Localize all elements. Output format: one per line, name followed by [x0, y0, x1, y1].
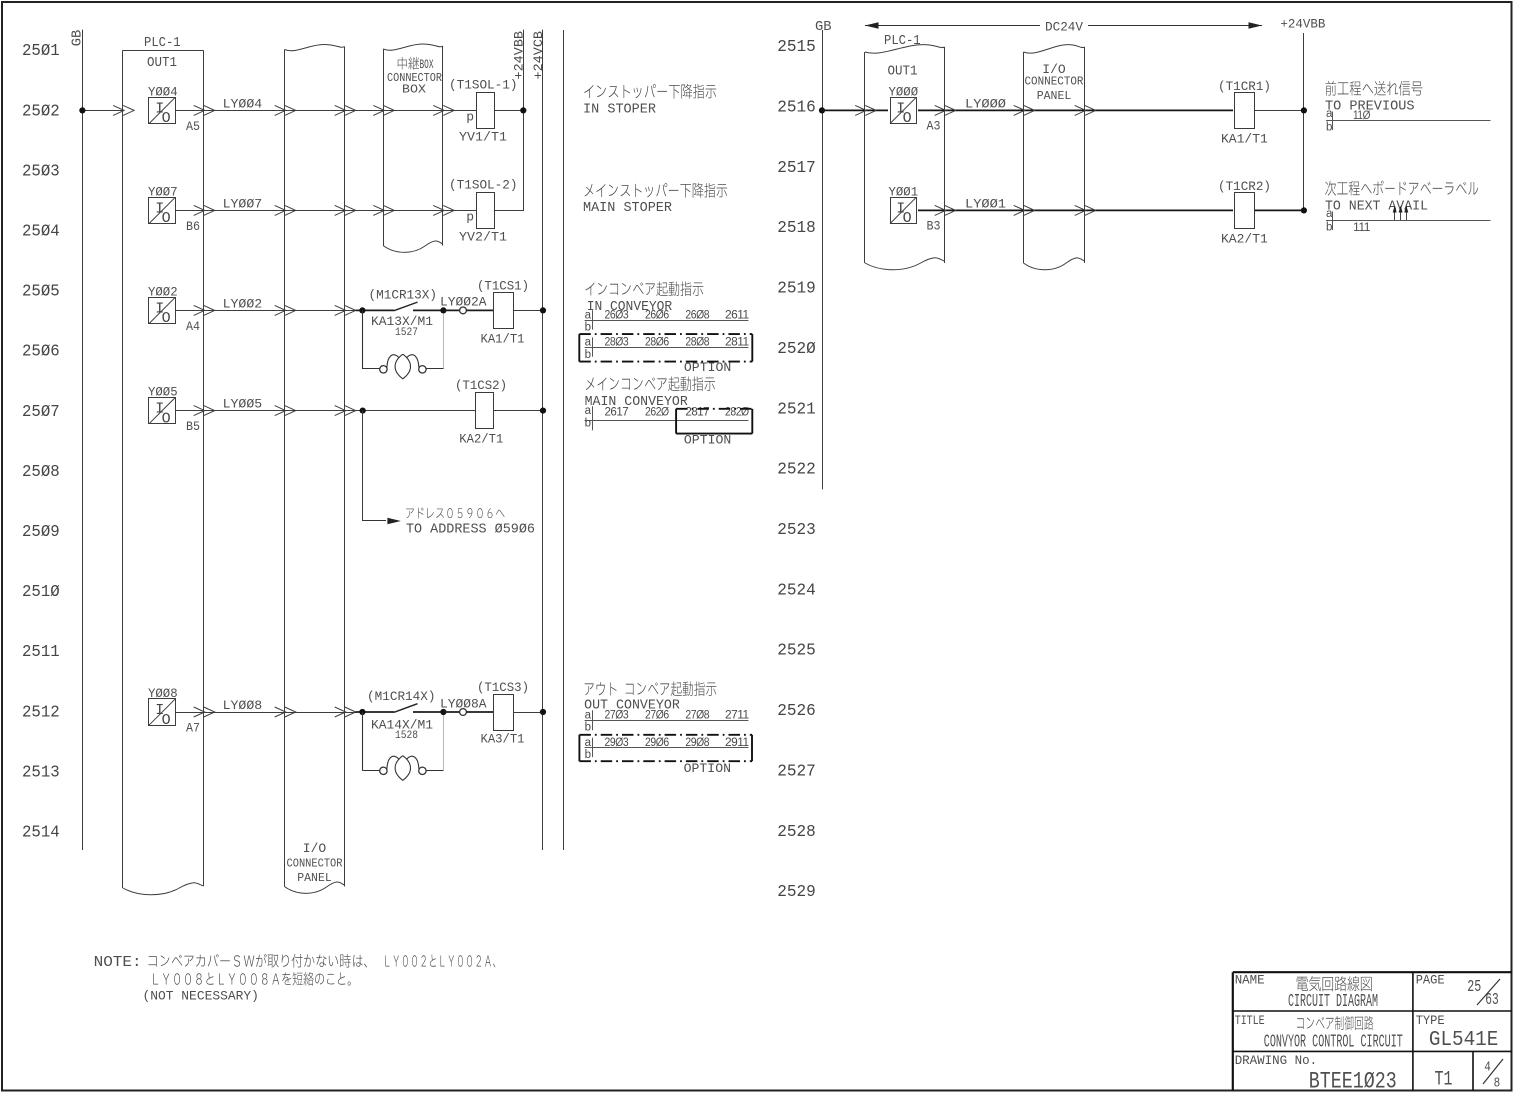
- svg-text:(T1SOL-1): (T1SOL-1): [449, 78, 518, 93]
- wire to connector LY008A: [443, 711, 459, 713]
- svg-text:+24VCB: +24VCB: [531, 31, 546, 80]
- note line 2: [153, 972, 350, 986]
- svg-text:27Ø3: 27Ø3: [605, 707, 629, 721]
- svg-text:TO ADDRESS Ø59Ø6: TO ADDRESS Ø59Ø6: [406, 523, 535, 538]
- svg-text:2524: 2524: [777, 581, 816, 599]
- PLC output Y007 I/O block: [149, 198, 176, 224]
- chevrons PLC right edge rung 2502: [194, 105, 205, 115]
- svg-text:(T1CR1): (T1CR1): [1218, 79, 1271, 94]
- chevrons junction box right rung 2502: [433, 105, 444, 115]
- svg-text:B6: B6: [186, 219, 200, 234]
- chevrons at PLC-1 left edge rung 2502: [113, 105, 124, 115]
- chevrons rung 2516: [855, 105, 866, 115]
- wire LY004: [175, 110, 476, 112]
- svg-text:O: O: [162, 410, 171, 427]
- svg-text:O: O: [162, 210, 171, 227]
- relay coil T1CR2: [1233, 191, 1256, 229]
- PLC-1 box (right): [864, 52, 866, 263]
- junction +24VCB rung 2505: [540, 307, 546, 313]
- svg-text:LYØØ5: LYØØ5: [223, 397, 263, 412]
- wire rung 2516 (thick): [822, 109, 1235, 111]
- svg-text:b: b: [585, 418, 591, 430]
- svg-text:PLC-1: PLC-1: [884, 33, 921, 49]
- svg-text:25Ø4: 25Ø4: [22, 223, 60, 241]
- svg-text:A5: A5: [186, 119, 200, 134]
- svg-text:(T1CS3): (T1CS3): [477, 680, 529, 695]
- column separator line: [563, 30, 565, 850]
- svg-text:YV2/T1: YV2/T1: [459, 229, 507, 244]
- svg-text:BTEE1Ø23: BTEE1Ø23: [1309, 1068, 1397, 1093]
- chevrons panel line2 rung 2502: [335, 105, 346, 115]
- chevrons rung 2505: [194, 305, 205, 315]
- svg-text:GL541E: GL541E: [1429, 1029, 1498, 1052]
- svg-text:+24VBB: +24VBB: [1280, 17, 1325, 32]
- svg-text:KA2/T1: KA2/T1: [459, 432, 503, 447]
- svg-text:BOX: BOX: [402, 84, 426, 97]
- svg-text:A4: A4: [186, 319, 200, 334]
- svg-text:2522: 2522: [777, 461, 816, 479]
- comment インストッパー下降指示: [584, 84, 716, 99]
- svg-text:(M1CR13X): (M1CR13X): [369, 288, 438, 303]
- svg-text:4: 4: [1484, 1061, 1491, 1076]
- svg-text:b: b: [585, 722, 591, 734]
- connector point LY008A: [460, 709, 467, 716]
- svg-text:KA1/T1: KA1/T1: [1221, 131, 1268, 146]
- svg-text:2513: 2513: [22, 763, 60, 781]
- label アドレス05906へ: [406, 508, 504, 519]
- junction rung 2507 branch to address: [360, 408, 366, 414]
- svg-text:KA1/T1: KA1/T1: [481, 332, 525, 347]
- wire T1CS3 to +24VCB: [513, 712, 543, 714]
- comment アウトコンベア起動指示: [585, 681, 717, 696]
- junction GB rung 2516: [819, 107, 825, 113]
- svg-text:LYØØ8: LYØØ8: [223, 698, 263, 713]
- contact KA14X/M1 (M1CR14X): [394, 704, 418, 713]
- svg-text:27Ø6: 27Ø6: [645, 707, 669, 721]
- svg-text:TYPE: TYPE: [1416, 1014, 1445, 1028]
- label 中継BOX CONNECTOR BOX: [398, 57, 419, 70]
- svg-text:B5: B5: [186, 419, 200, 434]
- title 電気回路線図: [1297, 976, 1372, 991]
- comment 次工程へボードアベーラベル: [1325, 180, 1478, 195]
- svg-text:28Ø6: 28Ø6: [645, 334, 669, 348]
- bus +24VCB (left): [542, 30, 544, 850]
- solenoid coil T1SOL-1: [477, 93, 495, 129]
- comment インコンベア起動指示: [586, 281, 704, 296]
- svg-text:252Ø: 252Ø: [777, 340, 816, 358]
- svg-text:251Ø: 251Ø: [22, 583, 60, 601]
- wire T1CR1 to +24VBB (thin): [1255, 110, 1304, 112]
- svg-text:DC24V: DC24V: [1045, 20, 1083, 35]
- contact KA13X/M1 (M1CR13X): [394, 302, 418, 311]
- svg-text:A7: A7: [186, 721, 200, 736]
- junction right of contact rung 2512: [440, 709, 446, 715]
- svg-text:2617: 2617: [605, 404, 629, 418]
- svg-text:25Ø5: 25Ø5: [22, 283, 60, 301]
- svg-text:YØØ7: YØØ7: [148, 184, 178, 199]
- comment メインコンベア起動指示: [586, 376, 715, 391]
- svg-text:(T1SOL-2): (T1SOL-2): [449, 178, 518, 193]
- svg-text:25Ø3: 25Ø3: [22, 162, 60, 180]
- svg-text:29Ø6: 29Ø6: [645, 735, 669, 749]
- option box MAIN CONVEYOR 2817-2820: [676, 408, 752, 410]
- svg-text:2514: 2514: [22, 824, 60, 842]
- junction +24VBB rung 2502: [520, 107, 526, 113]
- svg-text:2521: 2521: [777, 400, 816, 418]
- title block frame: [1233, 971, 1512, 973]
- comment メインストッパー下降指示: [585, 183, 728, 198]
- chevrons junction box left rung 2502: [373, 105, 384, 115]
- comment 前工程へ送れ信号: [1325, 81, 1422, 96]
- svg-text:YØØØ: YØØØ: [889, 84, 919, 99]
- svg-text:(NOT NECESSARY): (NOT NECESSARY): [143, 989, 259, 1004]
- svg-text:GB: GB: [815, 20, 832, 35]
- svg-text:2911: 2911: [725, 735, 750, 749]
- option box OUT CONVEYOR 2903-2911: [579, 734, 752, 736]
- svg-text:a: a: [585, 709, 592, 721]
- relay coil T1CR1: [1233, 91, 1256, 129]
- svg-text:LYØØ2A: LYØØ2A: [440, 295, 487, 310]
- svg-text:+24VBB: +24VBB: [511, 31, 526, 80]
- svg-text:25: 25: [1467, 977, 1481, 996]
- svg-text:26Ø8: 26Ø8: [685, 307, 709, 321]
- wire LY002: [175, 310, 357, 312]
- wire T1CR2 to +24VBB (thick): [1255, 209, 1304, 211]
- svg-text:1527: 1527: [395, 327, 418, 339]
- PLC-1 box (left): [123, 50, 204, 52]
- svg-text:26Ø3: 26Ø3: [605, 307, 629, 321]
- svg-text:(T1CR2): (T1CR2): [1218, 179, 1271, 194]
- bus GB (left): [82, 30, 84, 850]
- svg-text:2711: 2711: [725, 707, 750, 721]
- svg-text:2523: 2523: [777, 521, 816, 539]
- svg-text:DRAWING No.: DRAWING No.: [1235, 1054, 1318, 1068]
- svg-text:25Ø1: 25Ø1: [22, 42, 60, 60]
- svg-text:O: O: [903, 210, 912, 227]
- PLC output Y004 I/O block: [149, 98, 176, 124]
- wire contact to junction: [413, 309, 443, 311]
- chevrons rung 2507: [194, 406, 205, 416]
- wire contact to junction rung 2512: [413, 711, 443, 713]
- svg-text:PLC-1: PLC-1: [144, 35, 181, 51]
- arrowhead to address: [387, 518, 401, 524]
- wire LY007: [175, 210, 476, 212]
- svg-text:b: b: [585, 749, 591, 761]
- svg-text:NOTE:: NOTE:: [94, 955, 142, 971]
- svg-text:a: a: [585, 309, 592, 321]
- svg-text:CONNECTOR: CONNECTOR: [287, 858, 343, 871]
- svg-text:YV1/T1: YV1/T1: [459, 129, 507, 144]
- wire T1SOL-1 to +24VBB: [494, 110, 523, 112]
- svg-text:2527: 2527: [777, 762, 816, 780]
- svg-text:YØØ8: YØØ8: [148, 686, 178, 701]
- svg-text:2512: 2512: [22, 703, 60, 721]
- chevrons panel line1 rung 2502: [275, 105, 286, 115]
- I/O connector panel box (right): [1023, 52, 1025, 263]
- bus GB (right): [822, 30, 824, 489]
- option box IN CONVEYOR 2803-2811: [579, 333, 752, 335]
- svg-text:2528: 2528: [777, 823, 816, 841]
- svg-text:2529: 2529: [777, 883, 816, 901]
- svg-text:a: a: [1326, 108, 1333, 120]
- svg-text:I/O: I/O: [303, 841, 327, 856]
- svg-text:T1: T1: [1435, 1069, 1453, 1092]
- svg-text:YØØ4: YØØ4: [148, 84, 178, 99]
- svg-text:CONVYOR CONTROL CIRCUIT: CONVYOR CONTROL CIRCUIT: [1264, 1032, 1403, 1053]
- junction box 中継BOX CONNECTOR BOX: [383, 49, 385, 246]
- svg-text:(T1CS2): (T1CS2): [455, 378, 507, 393]
- svg-text:OPTION: OPTION: [684, 360, 731, 375]
- svg-text:2515: 2515: [777, 38, 816, 56]
- svg-text:TO NEXT AVAIL: TO NEXT AVAIL: [1325, 200, 1428, 215]
- svg-text:25Ø7: 25Ø7: [22, 403, 60, 421]
- wire to contact: [356, 309, 394, 311]
- svg-text:LYØØ8A: LYØØ8A: [440, 697, 487, 712]
- PLC output Y002 I/O block: [149, 298, 176, 324]
- svg-text:TITLE: TITLE: [1235, 1014, 1265, 1028]
- PLC output Y008 I/O block: [149, 699, 176, 726]
- solenoid coil T1SOL-2: [477, 193, 495, 229]
- wire rung 2518 (thick): [890, 209, 1235, 211]
- chevrons rung 2518: [935, 205, 946, 215]
- svg-text:PAGE: PAGE: [1416, 973, 1445, 987]
- svg-text:YØØ2: YØØ2: [148, 284, 178, 299]
- junction +24VBB rung 2518: [1301, 207, 1307, 213]
- svg-text:LYØØ1: LYØØ1: [965, 196, 1006, 211]
- svg-text:O: O: [162, 110, 171, 127]
- svg-text:LYØØØ: LYØØØ: [965, 96, 1006, 111]
- junction left of contact rung 2512: [359, 709, 365, 715]
- svg-text:OUT1: OUT1: [147, 55, 177, 71]
- PLC output Y000 I/O block: [888, 95, 918, 125]
- svg-text:2525: 2525: [777, 642, 816, 660]
- bus +24VBB (left): [523, 30, 525, 211]
- svg-text:CIRCUIT DIAGRAM: CIRCUIT DIAGRAM: [1288, 991, 1378, 1012]
- svg-text:LYØØ7: LYØØ7: [223, 196, 263, 211]
- svg-text:PANEL: PANEL: [1037, 90, 1072, 103]
- svg-text:KA2/T1: KA2/T1: [1221, 231, 1268, 246]
- svg-text:BOX: BOX: [420, 58, 434, 72]
- junction +24VBB rung 2516: [1301, 107, 1307, 113]
- svg-text:O: O: [162, 310, 171, 327]
- svg-text:O: O: [162, 712, 171, 729]
- svg-text:25Ø9: 25Ø9: [22, 523, 60, 541]
- svg-text:b: b: [585, 349, 591, 361]
- svg-text:IN STOPER: IN STOPER: [583, 103, 656, 118]
- relay coil T1CS3: [494, 695, 514, 731]
- svg-text:2811: 2811: [725, 334, 750, 348]
- svg-text:29Ø8: 29Ø8: [685, 735, 709, 749]
- wire T1SOL-2 to +24VBB: [494, 210, 523, 212]
- wire T1CS2 to +24VCB: [494, 410, 543, 412]
- svg-text:28Ø3: 28Ø3: [605, 334, 629, 348]
- svg-text:111: 111: [1353, 220, 1371, 234]
- svg-text:p: p: [466, 110, 474, 125]
- junction right of contact rung 2505: [440, 307, 446, 313]
- up arrows on TO NEXT AVAIL row: [1394, 207, 1396, 220]
- bus +24VBB (right side): [1303, 33, 1305, 210]
- junction left of contact rung 2505: [359, 307, 365, 313]
- wire LY008: [175, 712, 357, 714]
- svg-text:MAIN CONVEYOR: MAIN CONVEYOR: [585, 395, 688, 410]
- svg-text:O: O: [903, 110, 912, 127]
- wire rung 2502 from GB bus to PLC: [82, 110, 123, 112]
- svg-text:B3: B3: [927, 219, 941, 234]
- svg-text:OUT1: OUT1: [888, 64, 918, 80]
- svg-text:25Ø6: 25Ø6: [22, 343, 60, 361]
- wire to connector LY002A: [443, 309, 459, 311]
- svg-text:2817: 2817: [685, 404, 709, 418]
- svg-text:2516: 2516: [777, 99, 816, 117]
- chevrons rung 2503: [194, 205, 205, 215]
- svg-text:28Ø8: 28Ø8: [685, 334, 709, 348]
- svg-text:LYØØ2: LYØØ2: [223, 296, 263, 311]
- parallel branch connector pair rung 2512/2513: [362, 712, 364, 771]
- svg-text:27Ø8: 27Ø8: [685, 707, 709, 721]
- junction +24VCB rung 2507: [540, 408, 546, 414]
- svg-text:GB: GB: [71, 30, 86, 47]
- wire connector to coil T1CS3: [466, 711, 493, 713]
- svg-text:a: a: [585, 405, 592, 417]
- svg-text:CONNECTOR: CONNECTOR: [1025, 76, 1084, 89]
- svg-text:LYØØ4: LYØØ4: [223, 96, 263, 111]
- svg-text:p: p: [466, 210, 474, 225]
- PLC output Y005 I/O block: [149, 398, 176, 424]
- svg-text:PANEL: PANEL: [297, 872, 332, 885]
- svg-text:11Ø: 11Ø: [1353, 108, 1370, 122]
- svg-text:OPTION: OPTION: [684, 761, 731, 776]
- svg-text:2519: 2519: [777, 280, 816, 298]
- svg-text:1528: 1528: [395, 730, 418, 742]
- svg-text:25Ø2: 25Ø2: [22, 102, 60, 120]
- wire T1CS1 to +24VCB: [513, 310, 543, 312]
- svg-text:262Ø: 262Ø: [645, 404, 669, 418]
- parallel branch connector pair rung 2505/2506: [362, 310, 364, 369]
- svg-text:YØØ1: YØØ1: [889, 184, 919, 199]
- svg-text:MAIN STOPER: MAIN STOPER: [583, 201, 672, 216]
- svg-text:a: a: [585, 336, 592, 348]
- relay coil T1CS2: [476, 393, 494, 429]
- svg-text:NAME: NAME: [1235, 973, 1265, 987]
- svg-text:2511: 2511: [22, 643, 60, 661]
- I/O connector panel lines (left): [284, 50, 286, 887]
- svg-text:A3: A3: [927, 119, 941, 134]
- svg-text:282Ø: 282Ø: [725, 404, 749, 418]
- title コンベア制御回路: [1297, 1016, 1373, 1030]
- svg-text:KA3/T1: KA3/T1: [481, 731, 525, 746]
- svg-text:b: b: [1326, 221, 1332, 233]
- PLC output Y001 I/O block: [888, 195, 918, 225]
- svg-text:8: 8: [1494, 1077, 1501, 1092]
- svg-text:2518: 2518: [777, 219, 816, 237]
- branch wire to address 05906: [362, 411, 364, 521]
- relay coil T1CS1: [494, 293, 514, 329]
- connector point LY002A: [460, 307, 467, 314]
- svg-text:29Ø3: 29Ø3: [605, 735, 629, 749]
- wire to contact rung 2512: [356, 711, 394, 713]
- wire connector to coil: [466, 309, 493, 311]
- power line DC24V with arrows: [865, 25, 1262, 27]
- svg-text:26Ø6: 26Ø6: [645, 307, 669, 321]
- junction +24VCB rung 2512: [540, 709, 546, 715]
- svg-text:2517: 2517: [777, 159, 816, 177]
- svg-text:a: a: [1326, 208, 1333, 220]
- svg-text:(T1CS1): (T1CS1): [477, 279, 529, 294]
- chevrons rung 2512: [194, 707, 205, 717]
- svg-text:b: b: [585, 322, 591, 334]
- svg-text:63: 63: [1485, 990, 1499, 1009]
- svg-text:b: b: [1326, 121, 1332, 133]
- svg-text:(M1CR14X): (M1CR14X): [367, 689, 436, 704]
- svg-text:YØØ5: YØØ5: [148, 385, 178, 400]
- svg-text:OPTION: OPTION: [684, 432, 731, 447]
- junction on GB bus rung 2502: [79, 107, 85, 113]
- svg-text:2526: 2526: [777, 702, 816, 720]
- svg-text:25Ø8: 25Ø8: [22, 463, 60, 481]
- svg-text:2611: 2611: [725, 307, 750, 321]
- wire LY005: [175, 410, 475, 412]
